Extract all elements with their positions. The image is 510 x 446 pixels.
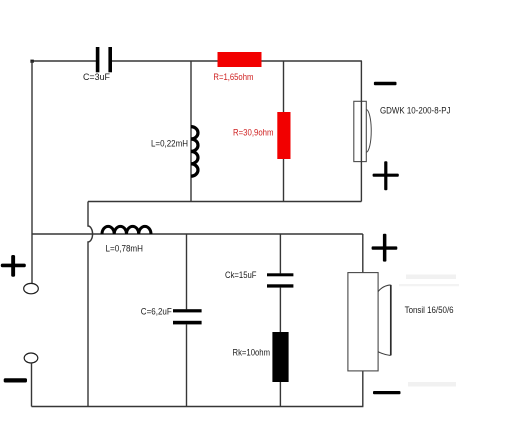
input terminal T1 (+)	[24, 283, 39, 293]
resistor R3 body	[272, 332, 288, 382]
wire: R3 to ground rail	[279, 382, 281, 407]
wire: woofer feed rail from + input	[32, 233, 363, 235]
wire: top rail, input+ to capacitor C1	[32, 60, 96, 62]
capacitor C1 plates	[96, 47, 112, 72]
wire: left rail, top corner down to + terminal	[31, 61, 33, 284]
speaker SP2 frame (Tonsil woofer)	[348, 273, 378, 371]
speaker SP1 frame (GDWK tweeter)	[354, 101, 367, 161]
ghost smudge mid (erased line)	[399, 284, 459, 286]
input polarity plus	[1, 255, 26, 277]
svg-text:GDWK 10-200-8-PJ: GDWK 10-200-8-PJ	[380, 105, 451, 115]
polarity plus (SP2)	[372, 234, 398, 262]
resistor R1 body	[218, 52, 262, 67]
svg-text:L=0,78mH: L=0,78mH	[106, 244, 144, 254]
polarity minus (SP2)	[373, 391, 401, 394]
wire: return drop with hop over woofer feed	[88, 202, 93, 407]
wire: capacitor C3 branch upper	[279, 234, 281, 273]
capacitor C3 plates	[267, 273, 293, 287]
polarity plus (SP1)	[373, 161, 399, 190]
wire: capacitor C2 branch lower	[186, 324, 188, 406]
svg-text:C=6,2uF: C=6,2uF	[141, 307, 172, 317]
resistor R2 body	[277, 112, 290, 159]
junction: top-left corner node	[30, 60, 33, 63]
svg-text:R=1,65ohm: R=1,65ohm	[213, 72, 253, 82]
svg-text:L=0,22mH: L=0,22mH	[151, 139, 188, 149]
svg-text:Tonsil 16/50/6: Tonsil 16/50/6	[405, 305, 454, 315]
svg-text:C=3uF: C=3uF	[83, 72, 110, 82]
wire: resistor R2 branch vertical	[283, 61, 285, 202]
ghost smudge upper (erased text)	[406, 275, 456, 280]
speaker SP2 cone mouth line	[390, 285, 392, 356]
wire: tweeter bottom return rail	[88, 201, 361, 203]
speaker SP1 cone	[366, 109, 371, 152]
input polarity minus	[4, 378, 27, 382]
inductor L2 winding	[102, 226, 151, 234]
input terminal T2 (-)	[24, 353, 38, 363]
wire: inductor L1 branch vertical	[190, 61, 192, 202]
wire: ground bottom rail	[32, 406, 364, 408]
svg-text:R=30,9ohm: R=30,9ohm	[233, 128, 274, 138]
wire: top rail, capacitor C1 to tweeter node	[112, 60, 362, 62]
wire: right rail tweeter (through frame)	[360, 61, 362, 202]
wire: C3 to R3 link	[279, 288, 281, 332]
speaker SP2 cone curves	[378, 285, 391, 356]
svg-text:Ck=15uF: Ck=15uF	[225, 270, 257, 280]
wire: capacitor C2 branch upper	[186, 234, 188, 309]
ghost smudge lower (erased text)	[408, 382, 456, 387]
inductor L1 winding	[191, 127, 198, 177]
wire: right rail woofer	[362, 234, 364, 407]
capacitor C2 plates	[173, 309, 202, 324]
svg-text:Rk=10ohm: Rk=10ohm	[233, 348, 271, 358]
polarity minus (SP1)	[374, 82, 397, 85]
wire: T2 down to ground rail	[31, 363, 33, 407]
